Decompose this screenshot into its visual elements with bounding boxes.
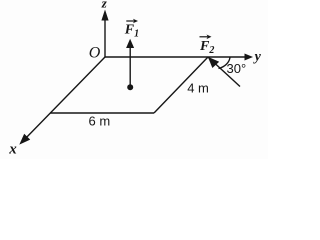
z axis arrowhead <box>101 10 108 21</box>
force F2 line <box>208 57 240 87</box>
F1 application point dot <box>127 84 133 90</box>
F2 arrowhead <box>208 57 219 68</box>
svg-text:30°: 30° <box>227 61 247 76</box>
svg-text:6 m: 6 m <box>89 114 111 129</box>
x axis <box>23 57 105 141</box>
F2 vector bar <box>200 36 210 38</box>
plate bottom edge (6 m) <box>50 112 154 114</box>
plate right edge (4 m) <box>154 57 208 113</box>
svg-text:O: O <box>89 45 101 62</box>
F1 arrowhead <box>126 39 134 48</box>
y axis <box>105 56 246 58</box>
svg-text:F1: F1 <box>124 23 139 40</box>
svg-text:y: y <box>253 49 262 64</box>
z axis <box>104 19 106 57</box>
x axis arrowhead <box>19 134 30 145</box>
F1 vector bar <box>126 20 135 22</box>
svg-text:F2: F2 <box>199 39 214 56</box>
svg-text:x: x <box>8 142 17 158</box>
force F1 line <box>129 46 131 88</box>
svg-text:4 m: 4 m <box>187 81 209 96</box>
30 degree arc <box>219 57 231 69</box>
y axis arrowhead <box>245 54 254 61</box>
svg-text:z: z <box>101 0 108 11</box>
